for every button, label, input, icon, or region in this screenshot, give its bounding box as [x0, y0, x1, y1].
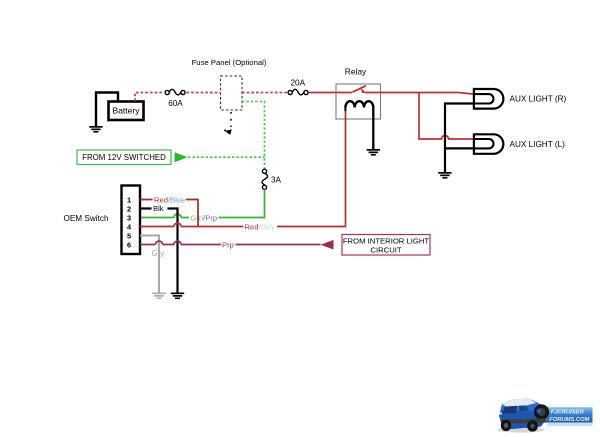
svg-text:Fuse Panel (Optional): Fuse Panel (Optional)	[192, 58, 267, 67]
wire red dashed fuse panel to 20A fuse	[242, 92, 287, 94]
svg-text:5: 5	[127, 231, 131, 240]
wire green pin3 with hop over black	[140, 214, 189, 217]
svg-text:Red/Orn: Red/Orn	[245, 222, 274, 231]
fuse F2 20A	[288, 79, 308, 95]
aux light L lamp	[474, 134, 565, 154]
wire red relay output to aux light R	[366, 93, 474, 95]
wire pin2 black to ground	[140, 209, 178, 293]
fuse F3 3A	[262, 169, 282, 189]
wire battery negative	[96, 93, 118, 127]
label Blk	[152, 204, 168, 213]
svg-text:Battery: Battery	[113, 106, 141, 116]
wire pin4 Red/Orn with hop, to relay coil	[140, 111, 346, 227]
wire red branch down to aux light L with hop over black	[419, 93, 474, 140]
svg-text:AUX LIGHT (L): AUX LIGHT (L)	[510, 140, 566, 149]
wire battery positive red dashed to 60A fuse	[135, 93, 164, 102]
svg-text:FJCRUISER: FJCRUISER	[551, 410, 585, 416]
svg-text:20A: 20A	[291, 79, 306, 88]
ground relay coil	[367, 149, 380, 156]
wire green dashed fuse panel to vertical drop	[242, 102, 265, 170]
wire pin6 Prp with two hops to interior light arrow	[140, 241, 321, 244]
svg-text:6: 6	[127, 240, 131, 249]
wire pin1 Red/Blue to pin4 net	[140, 200, 198, 227]
ground pin5 gray	[152, 293, 165, 300]
svg-text:FROM INTERIOR LIGHT: FROM INTERIOR LIGHT	[343, 237, 430, 246]
wire red 20A fuse to relay contact	[308, 92, 352, 94]
relay coil L1	[345, 101, 373, 111]
ground pin2 black	[171, 293, 184, 300]
svg-text:60A: 60A	[168, 99, 183, 108]
svg-text:FROM 12V SWITCHED: FROM 12V SWITCHED	[82, 153, 166, 162]
ground battery	[89, 126, 102, 133]
arrow from interior light circuit	[321, 240, 334, 250]
wire green dashed 12V switched to node	[188, 156, 265, 158]
svg-text:Red/Blue: Red/Blue	[154, 195, 185, 204]
svg-text:3: 3	[127, 213, 131, 222]
arrow from 12V switched	[175, 152, 188, 162]
fuse panel (optional)	[192, 58, 267, 110]
relay contact blade	[353, 86, 367, 93]
wire black aux light L to ground bus	[445, 147, 474, 149]
wire green 3A fuse down to pin3 corner	[219, 190, 265, 218]
logo fjcruiserforums.com	[497, 399, 593, 433]
wire black aux light R to ground bus	[445, 104, 474, 173]
wire red dashed 60A to fuse panel	[187, 92, 221, 94]
aux light R lamp	[474, 89, 567, 109]
svg-text:FORUMS.COM: FORUMS.COM	[549, 417, 589, 423]
wire relay coil to ground	[372, 107, 374, 149]
svg-text:Blk: Blk	[153, 204, 164, 213]
wire pin5 gray to ground	[140, 236, 159, 293]
battery B1	[109, 102, 144, 121]
svg-text:1: 1	[127, 195, 131, 204]
fuse panel stub to other circuits	[224, 112, 232, 135]
svg-text:OEM Switch: OEM Switch	[63, 214, 108, 223]
svg-text:Relay: Relay	[345, 67, 367, 77]
svg-text:2: 2	[127, 204, 131, 213]
svg-text:AUX LIGHT (R): AUX LIGHT (R)	[510, 95, 567, 104]
svg-text:Prp: Prp	[222, 240, 234, 249]
OEM switch connector	[122, 186, 141, 255]
from interior light circuit label box	[342, 235, 430, 256]
svg-text:Gry: Gry	[152, 249, 165, 258]
svg-text:CIRCUIT: CIRCUIT	[370, 245, 401, 254]
fuse F1 60A	[165, 89, 185, 108]
ground aux lights	[438, 172, 451, 179]
svg-text:3A: 3A	[271, 176, 282, 185]
svg-text:Grn/Prp: Grn/Prp	[191, 213, 218, 222]
from 12V switched label box	[77, 150, 171, 165]
relay U1 box	[336, 67, 381, 120]
